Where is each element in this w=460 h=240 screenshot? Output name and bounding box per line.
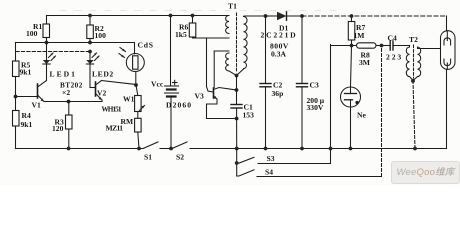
- svg-text:153: 153: [243, 111, 255, 120]
- capacitor C2: [260, 16, 271, 149]
- svg-text:3M: 3M: [359, 58, 370, 67]
- node CdS bottom: [134, 83, 138, 87]
- node R2 bottom: [88, 41, 92, 45]
- wire C1 to rail: [236, 119, 238, 149]
- node R7 top: [350, 14, 354, 18]
- svg-text:2 2 3: 2 2 3: [386, 53, 401, 62]
- potentiometer W1: [135, 85, 145, 118]
- battery Vcc: [165, 16, 179, 149]
- svg-text:S1: S1: [144, 153, 152, 162]
- resistor R1: [43, 16, 50, 43]
- resistor R3: [66, 102, 73, 149]
- node S3 pivot: [235, 161, 239, 165]
- wire T1 bottom drop: [236, 76, 238, 105]
- svg-text:1k5: 1k5: [175, 30, 187, 39]
- wire R6 to T1 tap: [193, 37, 230, 39]
- svg-text:1M: 1M: [354, 31, 365, 40]
- svg-text:9k1: 9k1: [20, 68, 32, 77]
- wire top right dashed: [302, 15, 447, 17]
- svg-text:LED1: LED1: [50, 70, 77, 79]
- svg-text:LED2: LED2: [92, 70, 114, 79]
- node Ne rail: [349, 147, 353, 151]
- svg-text:9k1: 9k1: [21, 120, 33, 129]
- node D1 left: [264, 14, 268, 18]
- svg-text:0.3A: 0.3A: [271, 50, 286, 59]
- capacitor C3: [297, 16, 308, 149]
- node T2 rail: [413, 147, 417, 151]
- svg-text:120: 120: [52, 124, 64, 133]
- neon lamp Ne: [341, 46, 361, 149]
- node base divider: [14, 95, 18, 99]
- node C1 rail: [235, 147, 239, 151]
- switch S4: [237, 170, 382, 177]
- svg-text:S3: S3: [267, 154, 275, 163]
- bottom rail middle: [190, 148, 447, 150]
- svg-text:100: 100: [26, 29, 38, 38]
- node R1 bottom: [45, 41, 49, 45]
- node S3 return rail: [329, 147, 333, 151]
- svg-text:MZ11: MZ11: [106, 124, 124, 133]
- LED LED1: [43, 43, 56, 81]
- svg-text:C4: C4: [388, 34, 397, 43]
- transformer T1: [226, 13, 248, 76]
- svg-text:2C221D: 2C221D: [261, 31, 298, 40]
- node D1 right: [300, 14, 304, 18]
- svg-text:V1: V1: [32, 101, 41, 110]
- svg-text:100: 100: [95, 31, 107, 40]
- svg-text:R4: R4: [22, 111, 31, 120]
- resistor R6: [189, 16, 196, 39]
- resistor R7: [348, 16, 355, 46]
- node C1 bottom: [235, 117, 239, 121]
- node RM bottom: [137, 147, 141, 151]
- photoresistor CdS: [119, 43, 144, 86]
- node C2 rail: [264, 147, 268, 151]
- svg-text:D2060: D2060: [166, 101, 192, 110]
- svg-text:V3: V3: [195, 92, 204, 101]
- rail between S1 S2: [160, 148, 172, 150]
- svg-text:Ne: Ne: [357, 111, 366, 120]
- wire dashed LED feed: [16, 51, 90, 53]
- resistor R2: [87, 16, 94, 43]
- bottom rail left: [16, 148, 144, 150]
- LED LED2: [86, 52, 99, 88]
- svg-text:T1: T1: [228, 2, 237, 11]
- node R8 right: [380, 44, 384, 48]
- watermark: [391, 161, 460, 184]
- transistor V3: [207, 88, 237, 119]
- node dashed end: [88, 50, 92, 54]
- thermistor RM: [135, 118, 142, 148]
- resistor R8: [357, 43, 391, 48]
- svg-text:×2: ×2: [62, 88, 70, 97]
- node R6 top: [191, 14, 195, 18]
- svg-text:S2: S2: [176, 153, 184, 162]
- svg-text:W1: W1: [123, 95, 135, 104]
- svg-text:V2: V2: [97, 89, 106, 98]
- resistor R4: [13, 97, 20, 149]
- svg-text:CdS: CdS: [138, 41, 154, 50]
- svg-text:36p: 36p: [272, 89, 284, 98]
- wire T1 tap2: [214, 50, 229, 52]
- wire V2 collector to CdS node: [102, 81, 137, 85]
- svg-text:C3: C3: [310, 81, 319, 90]
- switch S2: [172, 142, 187, 149]
- wire tube top drop: [446, 16, 448, 31]
- svg-text:330V: 330V: [307, 103, 324, 112]
- node C3 rail: [300, 147, 304, 151]
- svg-text:WH151: WH151: [102, 106, 122, 114]
- wire S3 S4 drop: [236, 149, 238, 177]
- capacitor C4: [390, 41, 409, 50]
- node T2 bottom dot: [411, 79, 415, 83]
- node battery bottom: [169, 147, 173, 151]
- svg-text:T2: T2: [409, 35, 418, 44]
- wire base drop: [207, 38, 214, 92]
- switch S1: [143, 142, 158, 149]
- wire output horizontal: [331, 45, 357, 47]
- svg-text:S4: S4: [265, 168, 273, 177]
- wire emitter bus: [44, 101, 102, 103]
- node R3 top: [67, 100, 71, 104]
- wire collector drop: [213, 51, 215, 88]
- wire top rail: [47, 15, 230, 17]
- node T2 join: [411, 79, 415, 83]
- diode D1: [266, 12, 303, 20]
- transistor V2: [90, 81, 102, 102]
- node R2 top: [88, 14, 92, 18]
- node R7 bottom: [350, 44, 354, 48]
- fluorescent tube T2 lamp: [441, 31, 456, 149]
- wire upper horizontal bus: [16, 42, 135, 44]
- node T1 bottom: [235, 74, 239, 78]
- wire secondary top: [244, 15, 265, 17]
- node R3 bottom: [67, 147, 71, 151]
- switch S3: [239, 157, 331, 163]
- node battery top: [169, 14, 173, 18]
- wire D1 output drop: [330, 45, 332, 164]
- transistor V1: [16, 81, 47, 102]
- transformer T2: [406, 45, 440, 149]
- scan ghost smudge: [60, 10, 340, 12]
- node collector: [235, 88, 239, 92]
- wire S4 riser: [381, 46, 383, 177]
- resistor R5: [13, 43, 20, 97]
- capacitor C1: [231, 105, 242, 119]
- svg-text:Vcc: Vcc: [151, 80, 164, 89]
